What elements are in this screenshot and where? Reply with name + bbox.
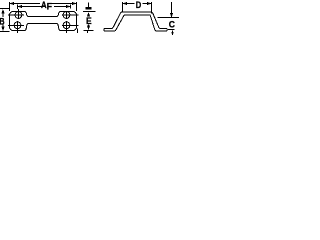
svg-text:B: B <box>0 16 5 27</box>
svg-text:E: E <box>86 16 92 27</box>
svg-text:D: D <box>136 0 142 11</box>
svg-text:F: F <box>47 2 53 13</box>
svg-text:C: C <box>169 20 175 31</box>
